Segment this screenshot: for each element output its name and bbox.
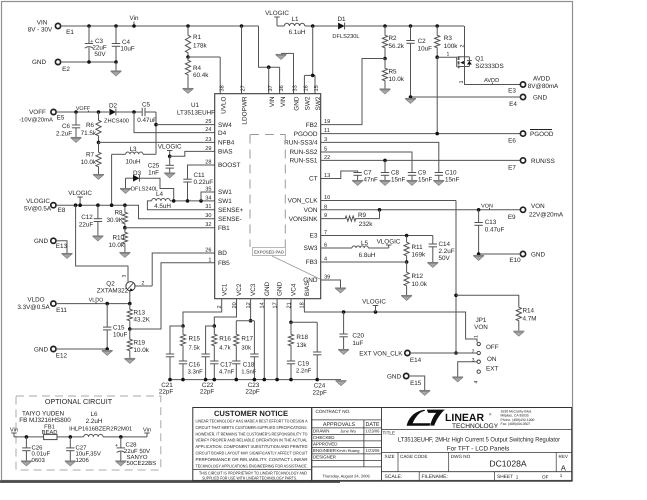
svg-text:UVLO: UVLO — [220, 96, 227, 113]
svg-text:CT: CT — [309, 176, 318, 183]
svg-text:Thursday, August 24, 2006: Thursday, August 24, 2006 — [322, 474, 370, 479]
svg-text:28: 28 — [205, 160, 211, 166]
capacitor C21 22pF — [166, 353, 174, 355]
inductor L3 10uH — [126, 152, 143, 154]
svg-text:OFF: OFF — [486, 344, 499, 351]
junction C27 — [69, 435, 73, 439]
svg-text:VERIFY PROPER AND RELIABLE OPE: VERIFY PROPER AND RELIABLE OPERATION IN … — [196, 438, 309, 443]
svg-text:0.47uF: 0.47uF — [137, 117, 157, 124]
svg-text:0.47uF: 0.47uF — [485, 227, 505, 234]
wire Q2 to BD pin 26 — [152, 253, 215, 286]
svg-text:R14: R14 — [523, 308, 535, 315]
ground below C13 — [473, 256, 484, 261]
svg-text:56.2k: 56.2k — [389, 43, 405, 50]
svg-text:C26: C26 — [32, 445, 44, 452]
wire VON_CLK line — [321, 200, 456, 202]
terminal E9 VON — [520, 207, 525, 212]
svg-text:GND: GND — [32, 59, 46, 66]
svg-text:VC4: VC4 — [291, 283, 298, 296]
svg-text:R9: R9 — [358, 212, 367, 219]
svg-text:EXT: EXT — [486, 366, 498, 373]
resistor R11 169k — [406, 236, 408, 242]
svg-text:15: 15 — [314, 85, 320, 91]
svg-text:C25: C25 — [148, 163, 160, 170]
svg-text:R13: R13 — [134, 310, 146, 317]
transistor Q2 ZXTAM322 — [126, 282, 135, 291]
svg-text:10uF: 10uF — [120, 46, 135, 53]
junction NFB4 node — [97, 141, 101, 145]
wire RUN-SS2 to C9 — [321, 152, 412, 173]
svg-text:2.2uF: 2.2uF — [56, 131, 72, 138]
terminal E10 GND — [520, 251, 525, 256]
svg-text:R15: R15 — [189, 336, 201, 343]
svg-text:15nF: 15nF — [445, 177, 460, 184]
transistor Q1 Si2333DS PMOS — [456, 57, 458, 67]
wire comp ground rail — [170, 379, 341, 381]
svg-text:E6: E6 — [508, 138, 516, 145]
svg-text:E7: E7 — [508, 165, 516, 172]
resistor R5 10.0k — [384, 59, 386, 68]
svg-text:R2: R2 — [389, 35, 398, 42]
terminal E15 GND — [404, 373, 409, 378]
junction R3 gate node — [435, 55, 439, 59]
svg-text:1: 1 — [447, 52, 450, 58]
wire C13 to E10 — [479, 253, 521, 255]
svg-text:SW1: SW1 — [218, 189, 232, 196]
svg-text:VON_CLK: VON_CLK — [288, 198, 319, 205]
wire VLOGIC out to SENSE- — [125, 205, 215, 219]
svg-text:GND: GND — [387, 373, 401, 380]
svg-text:ON: ON — [487, 356, 497, 363]
resistor R18 13k — [290, 322, 292, 333]
resistor R3 100k — [436, 26, 438, 34]
svg-text:L3: L3 — [129, 146, 137, 153]
svg-text:Vin: Vin — [143, 427, 151, 434]
svg-text:C15: C15 — [113, 325, 125, 332]
svg-text:1: 1 — [560, 473, 563, 478]
svg-text:1nF: 1nF — [148, 170, 159, 177]
svg-text:Vin: Vin — [130, 15, 139, 22]
svg-text:E4: E4 — [509, 101, 517, 108]
ground below C15 — [102, 351, 113, 356]
capacitor C26 0.01uF 0603 — [25, 437, 27, 448]
svg-text:22uF: 22uF — [79, 222, 94, 229]
wire gate node to PGOOD line — [436, 57, 438, 133]
bottom page edge line — [0, 480, 340, 483]
svg-text:22V@20mA: 22V@20mA — [529, 212, 564, 219]
svg-text:A: A — [561, 464, 566, 473]
svg-text:47nF: 47nF — [364, 177, 379, 184]
svg-text:26: 26 — [205, 248, 211, 254]
svg-text:R5: R5 — [389, 69, 398, 76]
svg-text:NFB4: NFB4 — [218, 140, 235, 147]
svg-text:E13: E13 — [56, 243, 68, 250]
svg-text:1/23/06: 1/23/06 — [366, 429, 381, 434]
ground below R12 — [401, 296, 412, 301]
wire D3 cathode to SW1 node — [140, 178, 174, 201]
svg-text:CIRCUIT THAT MEETS CUSTOMER-SU: CIRCUIT THAT MEETS CUSTOMER-SUPPLIED SPE… — [196, 425, 308, 430]
svg-text:SW3: SW3 — [304, 245, 318, 252]
capacitor C3 22uF 50V — [88, 26, 90, 44]
wire RUN-SS1 to E7 — [321, 159, 521, 161]
junction R13/R19 — [128, 327, 132, 331]
svg-text:OPTIONAL CIRCUIT: OPTIONAL CIRCUIT — [45, 397, 113, 406]
svg-text:DC1028A: DC1028A — [489, 459, 527, 469]
svg-text:6.1uH: 6.1uH — [289, 29, 306, 36]
resistor R6 71.5k — [98, 112, 100, 119]
svg-text:E10: E10 — [509, 257, 521, 264]
wire JP1 pin 3 to ground — [458, 362, 477, 377]
svg-text:VON: VON — [304, 207, 318, 214]
svg-text:TITLE: TITLE — [383, 431, 396, 436]
capacitor C2 10uF — [410, 26, 412, 41]
wire RUN-SS3/4 to C10 — [321, 142, 439, 172]
terminal E3 AVDD — [520, 82, 525, 87]
svg-text:R3: R3 — [444, 35, 453, 42]
svg-text:4.7nF: 4.7nF — [219, 369, 235, 376]
svg-text:22: 22 — [324, 155, 330, 161]
svg-text:DESIGNER: DESIGNER — [313, 454, 336, 459]
svg-text:0603: 0603 — [32, 457, 46, 464]
svg-text:RUN-SS2: RUN-SS2 — [289, 149, 317, 156]
wire to R14 — [456, 295, 519, 306]
resistor R10 10.0k — [124, 228, 126, 231]
svg-text:Q1: Q1 — [475, 56, 484, 63]
size cage dwg row — [382, 451, 572, 453]
wire optional circuit main line — [14, 436, 44, 438]
customer notice box — [193, 408, 312, 481]
svg-text:3.3nF: 3.3nF — [188, 369, 204, 376]
svg-text:C10: C10 — [445, 170, 457, 177]
wire FB5 to divider — [130, 263, 215, 329]
capacitor C18 1.5nF — [232, 360, 240, 362]
svg-text:FB3: FB3 — [306, 259, 318, 266]
svg-text:C9: C9 — [418, 170, 427, 177]
svg-text:RUN-SS3/4: RUN-SS3/4 — [284, 140, 318, 147]
svg-text:REV: REV — [559, 454, 569, 459]
capacitor C20 1uF — [343, 312, 345, 334]
svg-text:GND: GND — [277, 281, 284, 296]
svg-text:232k: 232k — [359, 221, 374, 228]
svg-text:5V@0.5A: 5V@0.5A — [24, 205, 52, 212]
svg-text:10.0k: 10.0k — [81, 159, 97, 166]
wire D2 cathode node — [116, 111, 142, 113]
resistor R12 10.0k — [406, 262, 408, 271]
svg-text:D3: D3 — [133, 170, 142, 177]
wire SW1 pin 35 jog — [201, 192, 215, 201]
capacitor C7 47nF — [353, 172, 361, 174]
svg-text:GND: GND — [264, 281, 271, 296]
svg-text:EXPOSED PAD: EXPOSED PAD — [254, 250, 284, 255]
wire PGOOD line — [321, 133, 521, 135]
wire VIN rail — [61, 25, 259, 27]
wire E13 to ground — [56, 241, 67, 253]
svg-text:3: 3 — [472, 358, 475, 364]
svg-text:C2: C2 — [418, 38, 427, 45]
svg-text:DATE: DATE — [366, 422, 380, 428]
terminal E14 EXT VON_CLK — [405, 350, 410, 355]
terminal E2 GND — [55, 59, 60, 64]
svg-text:RUN/SS: RUN/SS — [531, 158, 555, 165]
svg-text:SENSE+: SENSE+ — [218, 207, 244, 214]
wire VLOGIC output line — [56, 204, 125, 206]
resistor R15 7.5k — [182, 326, 184, 333]
svg-text:C28: C28 — [126, 442, 138, 449]
svg-text:10uF: 10uF — [113, 332, 128, 339]
wire L3 right to SW4 node — [143, 153, 156, 155]
wire Q2 collector to VLDO — [129, 291, 131, 304]
wire D1 to AVDD rail — [345, 25, 464, 27]
svg-text:C11: C11 — [194, 172, 206, 179]
diode D2 ZHCS400 — [109, 109, 115, 116]
svg-text:TECHNOLOGY APPLICATIONS ENGINE: TECHNOLOGY APPLICATIONS ENGINEERING FOR … — [196, 463, 308, 468]
svg-text:38: 38 — [219, 85, 225, 91]
capacitor C28 22uF 50V SANYO — [120, 437, 122, 448]
wire NFB4 to pin 23 — [99, 141, 215, 143]
diode D1 DFLS230L — [338, 23, 344, 30]
svg-text:Fax: (408)434-0507: Fax: (408)434-0507 — [501, 422, 531, 426]
resistor R16 4.7k — [213, 326, 215, 333]
svg-text:4: 4 — [474, 380, 480, 383]
svg-text:VC1: VC1 — [221, 283, 228, 296]
wire VON_CLK vertical — [455, 201, 457, 354]
ground at rail end — [336, 381, 347, 386]
resistor R9 232k on VONSINK — [321, 218, 344, 220]
contract no box — [312, 419, 382, 421]
svg-text:®: ® — [489, 413, 492, 417]
svg-text:E3: E3 — [310, 233, 318, 240]
terminal E12 GND — [51, 346, 56, 351]
inductor L6 2.2uH — [84, 434, 103, 437]
ground below R14 — [513, 331, 524, 336]
capacitor C13 0.47uF — [478, 210, 480, 223]
svg-text:7.5k: 7.5k — [189, 345, 201, 352]
terminal E1 VIN — [55, 23, 60, 28]
svg-text:AVDD: AVDD — [533, 76, 550, 83]
svg-text:C13: C13 — [485, 219, 497, 226]
svg-text:LDOPWR: LDOPWR — [242, 96, 249, 124]
svg-text:GND: GND — [533, 95, 547, 102]
svg-text:CAGE CODE: CAGE CODE — [400, 454, 428, 459]
svg-text:10.0k: 10.0k — [412, 281, 428, 288]
svg-text:DWG NO: DWG NO — [451, 454, 471, 459]
junction SW2 node — [305, 25, 338, 27]
svg-text:C20: C20 — [352, 333, 364, 340]
svg-text:22pF: 22pF — [313, 390, 328, 397]
svg-text:10uF,35V: 10uF,35V — [76, 451, 101, 458]
svg-text:R11: R11 — [412, 244, 424, 251]
wire L3 left to VLOGIC out — [112, 153, 126, 155]
svg-text:2: 2 — [472, 349, 475, 355]
svg-text:8V - 30V: 8V - 30V — [28, 27, 53, 34]
svg-text:C16: C16 — [189, 362, 201, 369]
svg-text:22pF: 22pF — [200, 389, 215, 396]
svg-text:1206: 1206 — [76, 457, 90, 464]
capacitor C25 1nF — [169, 156, 171, 165]
svg-text:10.0k: 10.0k — [109, 242, 125, 249]
svg-text:30.9K: 30.9K — [107, 217, 124, 224]
wire GND pin 39 stub — [321, 280, 341, 288]
svg-text:32: 32 — [205, 222, 211, 228]
svg-text:SUPPLIED FOR USE WITH LINEAR T: SUPPLIED FOR USE WITH LINEAR TECHNOLOGY … — [202, 476, 297, 481]
ground below R5 — [380, 89, 391, 94]
wire FB2 feedback — [321, 59, 385, 125]
capacitor C16 3.3nF — [179, 360, 187, 362]
svg-text:APPROVALS: APPROVALS — [323, 422, 356, 428]
svg-text:R4: R4 — [193, 65, 202, 72]
svg-text:ZHCS400: ZHCS400 — [104, 119, 129, 125]
wire D4 to D2 node — [134, 112, 215, 133]
svg-text:VIN: VIN — [269, 96, 276, 107]
wire VLDO line — [56, 303, 131, 305]
wire VIN rail corner to VIN pins — [259, 26, 280, 67]
wire GND pin 17 — [276, 299, 278, 380]
logo box line — [382, 429, 572, 431]
resistor R13 43.2K — [129, 304, 131, 308]
svg-text:SHEET: SHEET — [497, 474, 513, 480]
svg-text:15nF: 15nF — [418, 177, 433, 184]
svg-text:C7: C7 — [364, 170, 373, 177]
wire E3 pin line — [321, 235, 433, 237]
svg-text:C12: C12 — [81, 214, 93, 221]
svg-text:27: 27 — [241, 85, 247, 91]
svg-text:DFLS230L: DFLS230L — [332, 34, 359, 40]
ground at GND pin 33 — [293, 53, 295, 93]
svg-text:E11: E11 — [56, 307, 67, 314]
svg-text:4.7k: 4.7k — [219, 345, 231, 352]
svg-text:DFLS240L: DFLS240L — [131, 187, 158, 193]
svg-text:E8: E8 — [58, 207, 66, 214]
resistor R17 30k — [235, 321, 237, 333]
svg-text:E9: E9 — [508, 214, 516, 221]
svg-text:ZXTAM322: ZXTAM322 — [97, 288, 129, 295]
ground below C2 — [405, 99, 416, 104]
svg-text:LT3513EUHF, 2MHz High Current: LT3513EUHF, 2MHz High Current 5 Output S… — [398, 437, 561, 444]
svg-text:VLDO: VLDO — [27, 297, 44, 304]
svg-text:4.7M: 4.7M — [523, 316, 537, 323]
junction C28 — [119, 435, 123, 439]
svg-text:BOOST: BOOST — [218, 162, 240, 169]
junction C4 top — [114, 24, 118, 28]
svg-text:36: 36 — [279, 85, 285, 91]
svg-text:HOWEVER, IT REMAINS THE CUSTOM: HOWEVER, IT REMAINS THE CUSTOMER'S RESPO… — [196, 431, 308, 436]
svg-text:E3: E3 — [508, 88, 516, 95]
svg-text:6.8uH: 6.8uH — [359, 252, 376, 259]
svg-text:Kevin Huang: Kevin Huang — [337, 448, 360, 453]
svg-text:R18: R18 — [296, 334, 308, 341]
capacitor C14 2.2uF 50V — [432, 236, 434, 245]
junction C3 top — [87, 24, 91, 28]
svg-text:15nF: 15nF — [391, 177, 406, 184]
ground below C4 — [115, 62, 117, 71]
svg-text:RUN-SS1: RUN-SS1 — [289, 158, 317, 165]
svg-text:LINEAR TECHNOLOGY HAS MADE A B: LINEAR TECHNOLOGY HAS MADE A BEST EFFORT… — [196, 419, 308, 424]
svg-text:R10: R10 — [112, 235, 124, 242]
svg-text:3.3V@0.5A: 3.3V@0.5A — [17, 304, 50, 311]
svg-text:FB2: FB2 — [306, 122, 318, 129]
svg-text:BD: BD — [218, 250, 227, 257]
wire L4 left to SENSE+ — [147, 201, 214, 210]
svg-text:50CE22BS: 50CE22BS — [127, 460, 157, 467]
svg-text:10.0k: 10.0k — [389, 76, 405, 83]
capacitor C27 10uF 35V 1206 — [69, 437, 71, 448]
wire SW1 node line — [170, 200, 215, 202]
junction R1/R4 UVLO — [186, 55, 190, 59]
terminal E5 VOFF — [51, 109, 56, 114]
ground below R4 — [183, 89, 194, 94]
optional circuit dashed box — [16, 396, 161, 470]
svg-text:10uF: 10uF — [418, 46, 433, 53]
svg-text:VONSINK: VONSINK — [289, 216, 319, 223]
svg-text:C27: C27 — [76, 445, 88, 452]
U1 exposed pad dashed outline — [250, 134, 285, 136]
wire UVLO to pin 38 — [188, 56, 220, 58]
svg-text:VLOGIC: VLOGIC — [377, 239, 401, 246]
svg-text:C6: C6 — [62, 123, 71, 130]
svg-text:30k: 30k — [241, 345, 252, 352]
svg-text:43.2K: 43.2K — [134, 317, 151, 324]
svg-text:3: 3 — [459, 80, 465, 83]
svg-text:GND: GND — [531, 252, 545, 259]
svg-text:VON: VON — [474, 324, 488, 331]
svg-text:E2: E2 — [62, 66, 70, 73]
svg-text:29: 29 — [205, 146, 211, 152]
svg-text:R8: R8 — [114, 210, 123, 217]
svg-text:2.2uH: 2.2uH — [86, 418, 103, 425]
resistor R4 60.4k — [187, 57, 189, 59]
svg-text:VON: VON — [481, 204, 493, 210]
inductor L1 6.1uH — [277, 25, 284, 27]
svg-text:GND: GND — [294, 96, 301, 111]
terminal E13 GND — [51, 238, 56, 243]
svg-text:PGOOD: PGOOD — [530, 131, 554, 138]
capacitor C12 22uF — [97, 205, 99, 219]
wire GND pin 14 — [263, 299, 265, 380]
svg-text:E15: E15 — [410, 380, 422, 387]
svg-text:U1: U1 — [191, 102, 200, 109]
exposed pad label — [253, 248, 286, 256]
svg-text:R7: R7 — [86, 152, 95, 159]
wire VON line — [321, 209, 521, 211]
svg-text:E12: E12 — [56, 353, 68, 360]
wire CT to C7 — [321, 171, 358, 179]
svg-text:VC2: VC2 — [236, 283, 243, 296]
svg-text:1: 1 — [208, 257, 211, 263]
svg-text:FB1: FB1 — [218, 225, 230, 232]
wire BIAS pin 18 line — [304, 299, 477, 342]
wire R9 up to VON — [379, 210, 381, 219]
svg-text:1: 1 — [516, 474, 519, 479]
svg-text:APPLICATION. COMPONENT SUBSTI: APPLICATION. COMPONENT SUBSTITUTION AND … — [196, 444, 308, 449]
wire SW4 to pin 25 — [156, 124, 215, 126]
scale filename sheet row — [382, 471, 572, 473]
terminal E6 PGOOD — [520, 131, 525, 136]
wire E4 to ground — [411, 96, 521, 98]
svg-text:D2: D2 — [109, 103, 118, 110]
wire FB1 to pin 32 — [125, 227, 215, 229]
svg-text:SANYO: SANYO — [127, 454, 148, 461]
svg-text:5: 5 — [324, 147, 327, 153]
wire gate to Q1 — [437, 56, 456, 58]
svg-text:19: 19 — [324, 119, 330, 125]
svg-text:VLOGIC: VLOGIC — [362, 299, 386, 306]
svg-text:11: 11 — [324, 128, 330, 134]
svg-text:22pF: 22pF — [159, 389, 174, 396]
svg-text:23: 23 — [205, 137, 211, 143]
capacitor C23 22pF — [253, 321, 255, 354]
wire E15 to ground — [409, 376, 425, 390]
svg-text:VLOGIC: VLOGIC — [68, 190, 92, 197]
